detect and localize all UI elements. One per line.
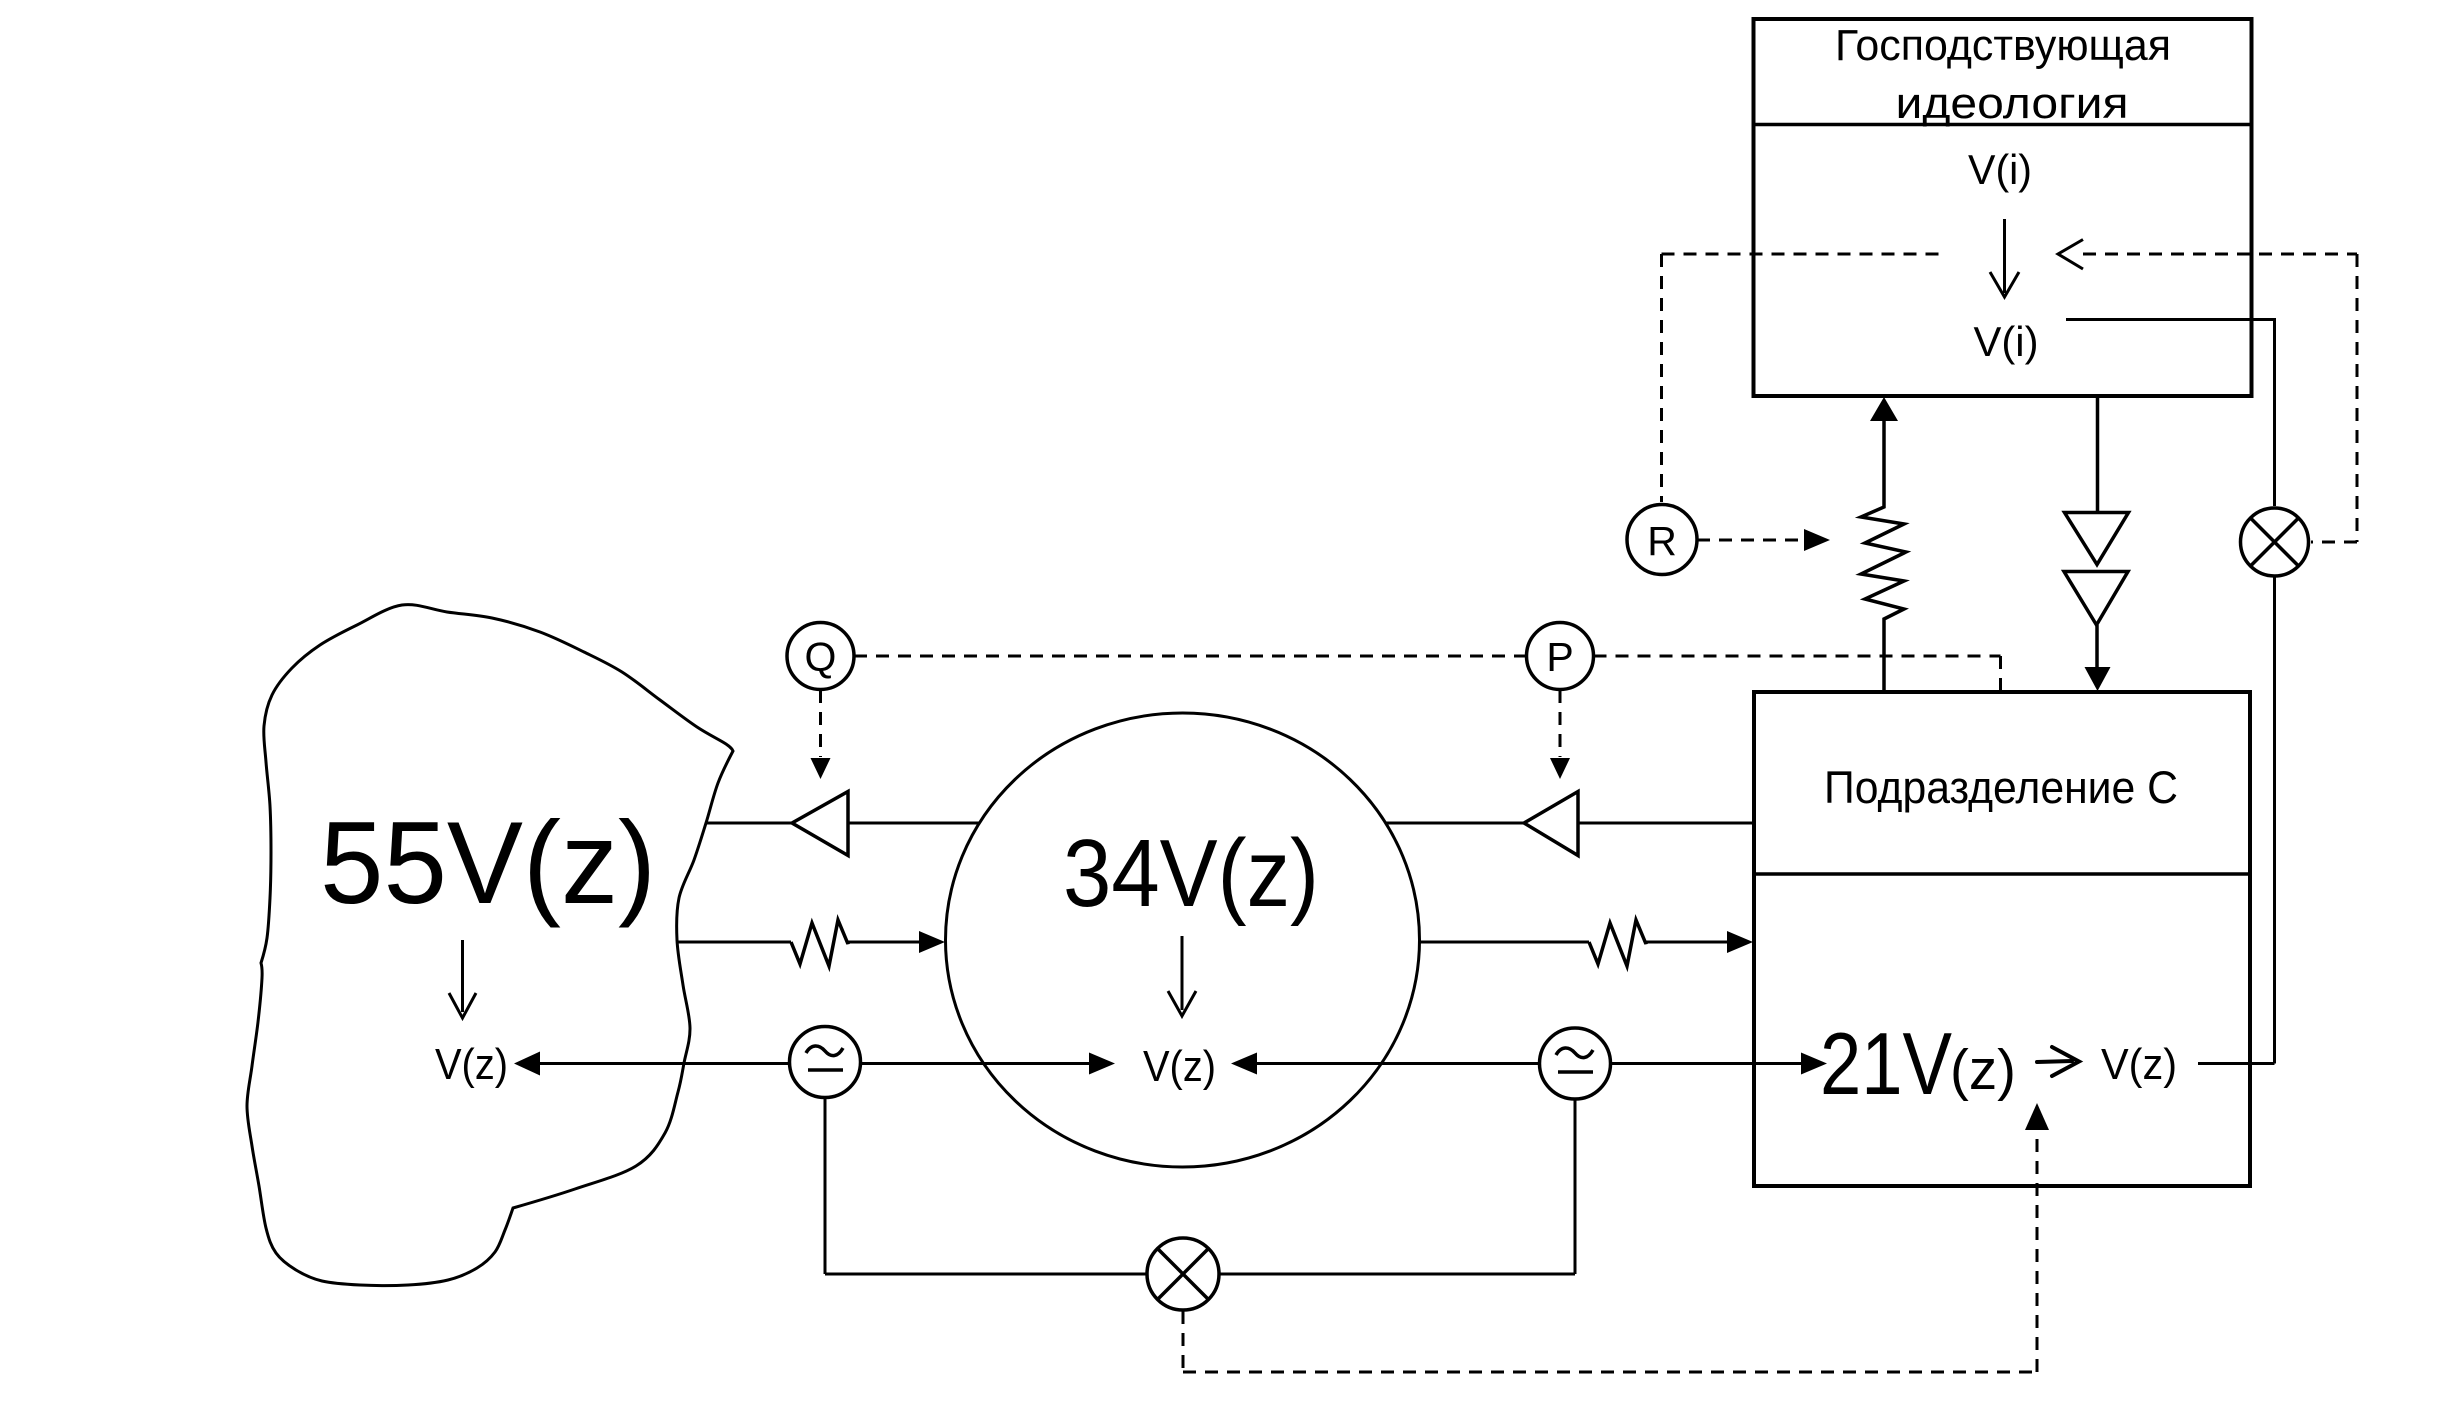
block U1: Господствующая идеология box xyxy=(1754,19,2252,396)
parameter node P xyxy=(1527,623,1594,690)
dashed net: top feedback into U1 xyxy=(1662,254,2358,542)
wire: right into circle V(z) xyxy=(1231,1053,1257,1075)
arrowhead up at 21V(z) xyxy=(2025,1103,2049,1130)
parameter node Q xyxy=(787,623,854,690)
wire: S1 down xyxy=(824,1098,827,1274)
svg-text:55V(z): 55V(z) xyxy=(320,797,656,928)
wire: up to S2 xyxy=(1574,1099,1577,1274)
dashed net Q-P to U2 top xyxy=(821,656,2001,757)
parameter node R xyxy=(1627,505,1697,575)
arrow down into U2 xyxy=(2085,667,2111,691)
wire: upper line from U2 to blob xyxy=(1578,822,1754,825)
wire: S2 into U2 (21V(z)) xyxy=(1611,1062,1802,1065)
divider of U1 xyxy=(1754,123,2252,127)
arrow 34V(z) down (thin open head) xyxy=(1168,936,1196,1016)
wire+resistor R2: blob to circle xyxy=(677,941,791,944)
dashed arrow R to resistor xyxy=(1697,539,1803,542)
wire: X1 down to V(z) row xyxy=(2273,576,2276,1064)
resistor R1 (vertical) xyxy=(1861,421,1906,692)
svg-text:V(z): V(z) xyxy=(1143,1042,1216,1091)
wire: S1 to circle V(z) xyxy=(861,1062,1090,1065)
amplifier T2 (left-pointing triangle) xyxy=(1524,792,1578,856)
svg-text:V(i): V(i) xyxy=(1974,318,2039,365)
svg-text:V(z): V(z) xyxy=(435,1040,508,1089)
node: big circle 34V(z) xyxy=(946,713,1420,1167)
arrowhead P down xyxy=(1550,758,1570,779)
amplifier T1 (left-pointing triangle) xyxy=(792,792,848,856)
svg-text:V(z): V(z) xyxy=(2101,1040,2177,1089)
arrow 55V(z) down (thin open head) xyxy=(449,940,476,1018)
wire: left V(z) arrow xyxy=(514,1052,540,1076)
svg-text:(z): (z) xyxy=(1950,1038,2016,1102)
divider of U2 xyxy=(1754,872,2250,876)
double-triangle element D1 xyxy=(2096,396,2100,511)
source S1 (approx-equal circle, left) xyxy=(790,1027,861,1098)
svg-text:R: R xyxy=(1647,518,1677,564)
svg-text:идеология: идеология xyxy=(1896,79,2129,128)
arrow up into U1 xyxy=(1870,397,1898,421)
arrow glyph between 21V(z) and V(z) xyxy=(2037,1047,2079,1076)
svg-text:P: P xyxy=(1546,634,1573,680)
svg-text:Подразделение C: Подразделение C xyxy=(1824,762,2178,813)
wire: V(z) to right column xyxy=(2198,1062,2275,1065)
arrow V(i) to V(i) (thin open head) xyxy=(1990,219,2019,297)
block U2: Подразделение C box xyxy=(1754,692,2250,1186)
dashed net: X2 to 21V(z) xyxy=(1183,1130,2037,1372)
wire: bottom left xyxy=(825,1273,1146,1276)
wire: bottom right xyxy=(1220,1273,1575,1276)
svg-text:34V(z): 34V(z) xyxy=(1063,820,1319,927)
svg-text:V(i): V(i) xyxy=(1968,146,2032,193)
multiplier X1 (circled X, top right) xyxy=(2241,508,2309,576)
arrowhead Q down xyxy=(811,758,831,779)
open arrowhead on dashed line (points left) xyxy=(2058,240,2083,270)
wire: V(i) lower to right column xyxy=(2066,320,2275,507)
source S2 (approx-equal circle, right) xyxy=(1540,1028,1611,1099)
svg-text:Q: Q xyxy=(805,634,837,680)
svg-text:Господствующая: Господствующая xyxy=(1835,21,2171,70)
svg-text:21V: 21V xyxy=(1820,1014,1952,1113)
multiplier X2 (circled X, bottom) xyxy=(1147,1238,1219,1310)
wire+resistor R3: circle to U2 xyxy=(1420,941,1589,944)
node: free-form blob region xyxy=(247,605,733,1286)
